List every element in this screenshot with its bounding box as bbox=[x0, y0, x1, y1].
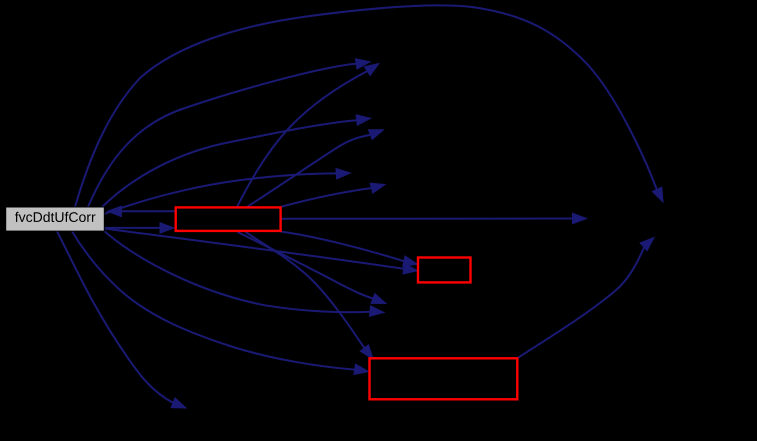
edge B1->node6 (upper) bbox=[238, 232, 387, 304]
node fvcDdtUfCorr (current, gray) bbox=[6, 207, 105, 231]
edge B1->G bbox=[107, 206, 175, 217]
edge B1->node5 bbox=[281, 183, 386, 207]
edge G->node2 bbox=[102, 115, 371, 207]
node B1 (truncated, red border) bbox=[176, 207, 281, 231]
edge G->nodeR (big top arc) bbox=[75, 5, 663, 207]
node B2 (truncated, red border) bbox=[418, 258, 471, 283]
edge B1->node3 bbox=[247, 130, 384, 207]
edge G->node4 bbox=[104, 169, 350, 215]
edge G->node6 (lower) bbox=[104, 231, 384, 316]
edge G->B1 bbox=[104, 223, 174, 234]
edge B3->nodeR (from corner) bbox=[517, 238, 654, 359]
edge B1->node1 bbox=[237, 64, 379, 208]
edge B1->nodeR (long horizontal) bbox=[281, 213, 587, 224]
edge B1->B3 (corner) bbox=[246, 232, 374, 359]
node B3 (truncated, red border) bbox=[370, 358, 518, 399]
edge G->B3 bbox=[72, 231, 369, 374]
edge G->node1 bbox=[88, 59, 370, 207]
edge G->node7 bbox=[57, 231, 186, 408]
edge G->B2 (lower) bbox=[104, 229, 417, 275]
edge B1->B2 (upper) bbox=[281, 232, 418, 267]
